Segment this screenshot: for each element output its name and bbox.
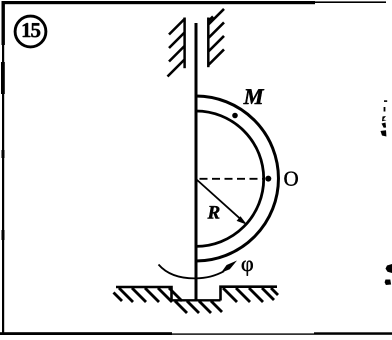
ground pit hatching (175, 301, 222, 313)
ground left surface with step (116, 287, 172, 301)
ground left hatching (114, 288, 183, 302)
top bearing left wall (183, 18, 186, 69)
top bearing left hatching (168, 19, 185, 77)
label R (208, 206, 220, 218)
shaft (vertical rotation axis) (195, 23, 198, 300)
top bearing right wall (207, 18, 210, 68)
problem number badge 15 (15, 16, 46, 47)
top bearing right hatching (208, 9, 224, 65)
radius arrow R (196, 179, 247, 225)
ground right surface with step (221, 287, 278, 301)
label φ (242, 261, 253, 276)
ground right hatching (223, 288, 278, 302)
label O (284, 172, 297, 186)
center line (dashed) from shaft to point O (200, 178, 265, 180)
point M on ring (232, 113, 238, 119)
ground pit floor (172, 299, 221, 301)
ring outer arc (196, 96, 278, 261)
point O on ring (265, 176, 271, 182)
label M (243, 89, 264, 104)
rotation arrow (angle φ) (159, 261, 238, 279)
ring inner arc (196, 111, 264, 246)
